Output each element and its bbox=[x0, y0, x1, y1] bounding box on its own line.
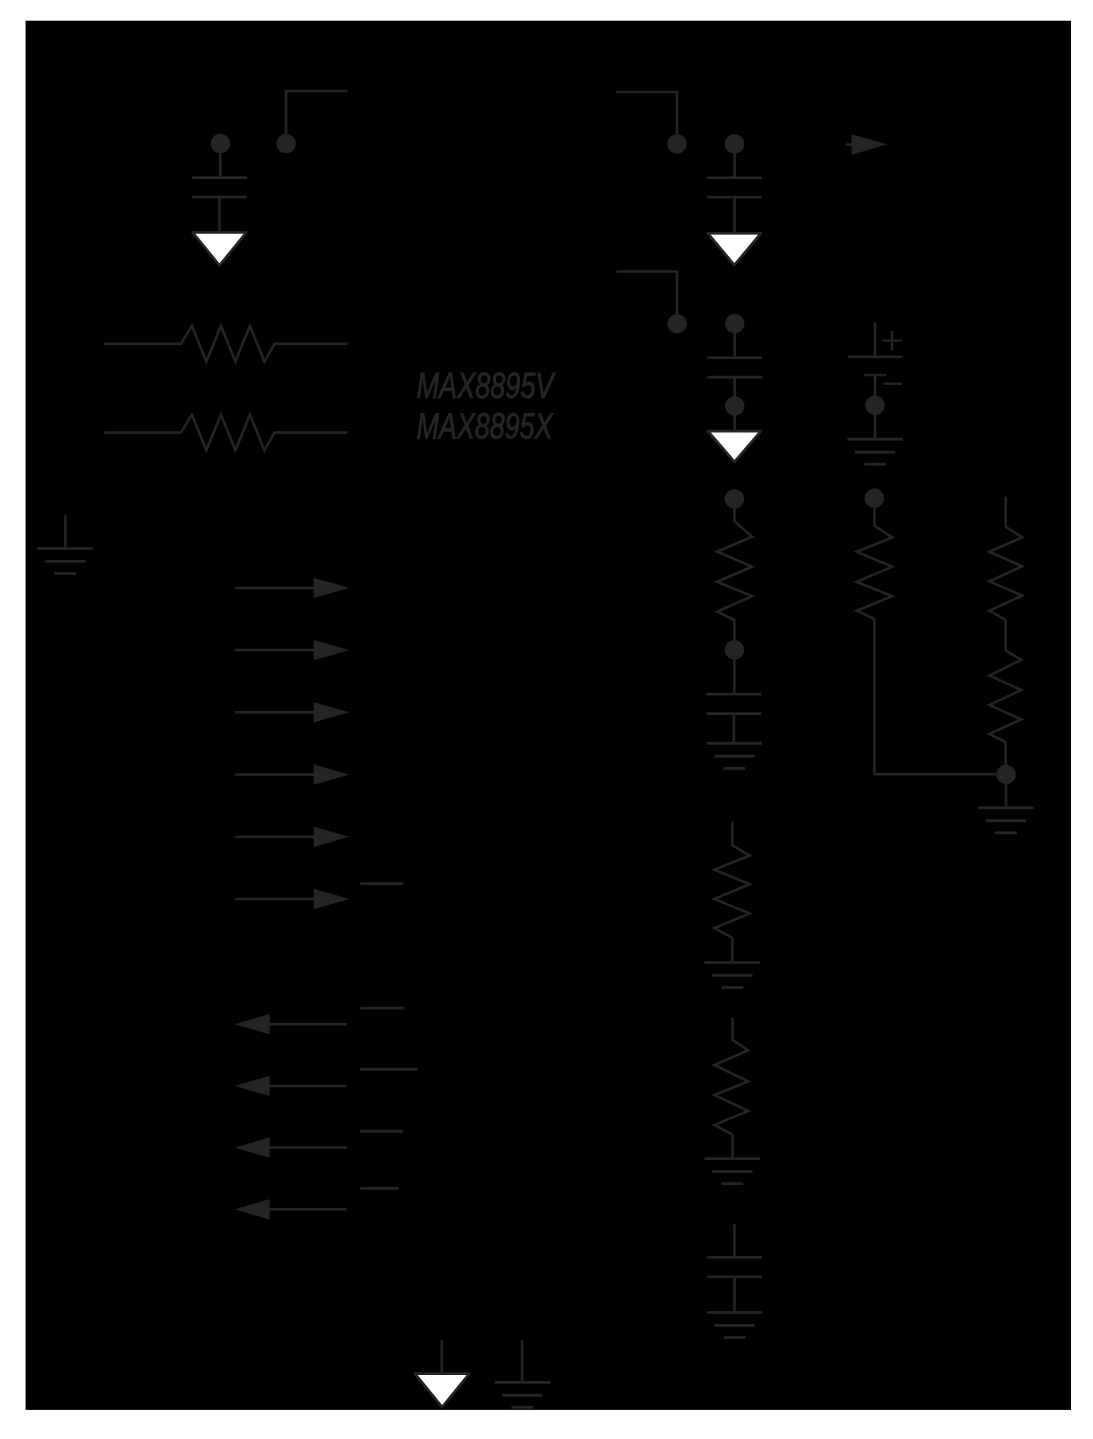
wire R4 top lead bbox=[731, 822, 734, 846]
output arrow FLT3 bbox=[235, 1137, 347, 1157]
capacitor C4 bbox=[707, 694, 762, 713]
node junction dot (R3/C4) bbox=[725, 640, 744, 659]
ground (FB divider) bbox=[978, 808, 1033, 833]
resistor R6 bbox=[857, 498, 893, 619]
capacitor C2 bbox=[707, 178, 762, 197]
wire to power ground bbox=[733, 406, 736, 430]
wire elbow to IN pin bbox=[286, 91, 347, 135]
wire C1 bottom lead bbox=[218, 197, 221, 232]
wire C5 to ground bbox=[733, 1277, 736, 1314]
power ground (C3) bbox=[708, 431, 761, 462]
minus label (-) bbox=[883, 383, 902, 385]
node junction dot (C3 bottom) bbox=[725, 396, 744, 415]
input arrow EN1 bbox=[235, 578, 349, 598]
battery BT1 negative plate bbox=[864, 374, 886, 376]
power ground (C2) bbox=[708, 233, 761, 265]
ground (R5) bbox=[705, 1159, 760, 1184]
input arrow EN5 bbox=[235, 827, 349, 847]
node junction dot (FB) bbox=[996, 765, 1015, 784]
node junction dot (IN) bbox=[276, 134, 295, 153]
output arrow FLT1 bbox=[235, 1014, 347, 1034]
IC part label MAX8895X bbox=[417, 405, 554, 446]
wire to C4 bbox=[733, 650, 736, 694]
wire R5 top lead bbox=[731, 1018, 734, 1041]
wire C3 bottom lead bbox=[733, 377, 736, 398]
wire C3 top lead bbox=[733, 324, 736, 357]
resistor R2 bbox=[104, 415, 347, 451]
wire PGND lead bbox=[440, 1340, 443, 1372]
wire R7 to R8 bbox=[1004, 620, 1007, 651]
node junction dot (C1 top) bbox=[211, 134, 230, 153]
wire C2 bottom lead bbox=[733, 197, 736, 232]
input arrow SEQ bbox=[235, 889, 349, 909]
ground (AGND) bbox=[495, 1382, 550, 1407]
wire battery positive lead bbox=[874, 322, 877, 356]
node junction dot (battery negative) bbox=[865, 396, 884, 415]
arrowhead OUT (points right) bbox=[852, 134, 888, 155]
capacitor C5 bbox=[707, 1257, 762, 1276]
power ground (C1) bbox=[193, 232, 247, 265]
wire R5 to ground bbox=[731, 1135, 734, 1160]
wire R8 bottom lead bbox=[1004, 742, 1007, 767]
IC part label MAX8895V bbox=[417, 365, 556, 406]
wire FB to ground bbox=[1005, 774, 1008, 806]
active-low overbar (input 6) bbox=[360, 882, 403, 885]
input arrow EN2 bbox=[235, 640, 349, 660]
active-low overbar (output 1) bbox=[360, 1007, 404, 1010]
wire battery to ground bbox=[874, 405, 877, 438]
plus label (+) bbox=[883, 331, 902, 351]
resistor R4 bbox=[714, 845, 749, 937]
output arrow FLT2 bbox=[235, 1076, 347, 1096]
node junction dot (R6 top) bbox=[865, 489, 884, 508]
wire C2 top lead bbox=[733, 144, 736, 177]
wire elbow to PVIN pin bbox=[616, 92, 677, 136]
ground (GND pin) bbox=[37, 549, 92, 574]
input arrow EN4 bbox=[235, 764, 349, 784]
wire OUT stub bbox=[846, 143, 853, 146]
ground (C4) bbox=[707, 743, 762, 768]
resistor R5 bbox=[715, 1040, 749, 1135]
wire elbow to SYS pin bbox=[617, 272, 678, 316]
node junction dot (R3 top) bbox=[725, 489, 744, 508]
capacitor C1 bbox=[192, 178, 247, 197]
node junction dot (PVIN) bbox=[667, 134, 686, 153]
active-low overbar (output 3) bbox=[360, 1130, 403, 1133]
ground (R4) bbox=[705, 963, 760, 988]
active-low overbar (output 2) bbox=[360, 1068, 417, 1071]
wire C4 to ground bbox=[733, 714, 736, 745]
wire R4 to ground bbox=[731, 938, 734, 964]
resistor R7 bbox=[989, 527, 1022, 620]
node junction dot (C2 top) bbox=[725, 134, 744, 153]
wire battery negative lead bbox=[874, 375, 877, 397]
input arrow EN3 bbox=[235, 702, 349, 722]
svg-text:MAX8895V: MAX8895V bbox=[417, 365, 556, 406]
battery BT1 positive plate bbox=[848, 356, 902, 358]
capacitor C3 bbox=[707, 358, 762, 377]
wire C5 top lead bbox=[733, 1224, 736, 1257]
wire GND pin lead bbox=[64, 515, 67, 548]
resistor R1 bbox=[104, 326, 347, 362]
ground (C5) bbox=[707, 1313, 762, 1338]
active-low overbar (output 4) bbox=[360, 1187, 399, 1190]
wire AGND lead bbox=[521, 1340, 524, 1382]
power ground (PGND) bbox=[415, 1374, 470, 1407]
node junction dot (C3 top) bbox=[725, 314, 744, 333]
wire C1 top lead bbox=[219, 144, 222, 177]
resistor R3 bbox=[717, 499, 752, 641]
wire R7 top lead bbox=[1004, 497, 1007, 528]
ground (battery) bbox=[847, 439, 902, 464]
wire R6 to FB node bbox=[874, 619, 1006, 774]
output arrow FLT4 bbox=[235, 1199, 347, 1219]
resistor R8 bbox=[989, 651, 1021, 743]
node junction dot (SYS) bbox=[667, 314, 686, 333]
svg-text:MAX8895X: MAX8895X bbox=[417, 405, 554, 446]
